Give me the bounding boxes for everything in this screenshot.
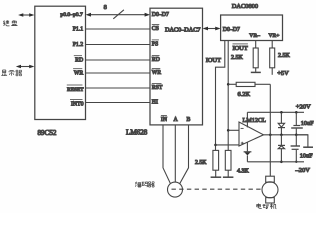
- wire to op-amp non-inverting input: [216, 144, 240, 146]
- svg-text:PS: PS: [152, 42, 158, 48]
- encoder circle: [168, 182, 183, 197]
- svg-text:CS: CS: [152, 26, 159, 32]
- svg-text:VR–: VR–: [249, 33, 260, 39]
- svg-text:A: A: [174, 117, 179, 123]
- svg-text:DAC0800: DAC0800: [232, 3, 258, 10]
- wire op-amp output: [264, 134, 308, 136]
- svg-text:10uF: 10uF: [301, 120, 314, 127]
- op-amp U1 LM12CL: [239, 122, 264, 146]
- svg-text:HI: HI: [152, 100, 158, 106]
- node diode bottom junction: [280, 161, 283, 164]
- ground (2.5K): [211, 176, 222, 178]
- svg-text:2.5K: 2.5K: [278, 53, 291, 59]
- ground (4.3K): [223, 176, 234, 178]
- svg-text:VR+: VR+: [269, 33, 280, 39]
- node diode mid junction: [280, 134, 283, 137]
- svg-text:+20V: +20V: [296, 104, 311, 111]
- svg-text:LM12CL: LM12CL: [243, 117, 267, 124]
- label keyboard (键盘): [3, 20, 17, 26]
- wire IOUT with jog: [216, 41, 225, 151]
- node junction inverting input: [227, 129, 230, 132]
- wire op-amp V- stub: [246, 142, 248, 151]
- motor brush bottom: [266, 198, 275, 203]
- ground (VR- resistor): [251, 71, 261, 73]
- ground (output stub): [303, 146, 313, 148]
- wire V+ supply to op-amp: [246, 112, 248, 127]
- svg-text:LM628: LM628: [126, 129, 148, 137]
- supply rail -20V: [247, 161, 304, 163]
- svg-text:WR: WR: [74, 70, 83, 76]
- svg-text:INT0: INT0: [71, 102, 84, 108]
- svg-text:RD: RD: [75, 57, 83, 63]
- resistor 2.5K (to ground, IOUT): [213, 150, 219, 170]
- wire feedback and motor drive vertical: [269, 84, 271, 176]
- capacitor C1 10uF (+20V rail): [295, 111, 298, 114]
- svg-text:10uF: 10uF: [300, 153, 313, 160]
- resistor 4.3K (to ground, IOUT-bar): [225, 150, 231, 170]
- wire 8-bit data bus 89C52 to LM628: [86, 13, 150, 17]
- motion controller LM628 box: [150, 8, 203, 125]
- wire P1.2 to PS: [86, 44, 151, 46]
- wire to op-amp inverting input: [228, 129, 239, 131]
- wire to 6.2K: [228, 83, 236, 85]
- wire dashed mechanical coupling encoder to motor: [172, 188, 263, 190]
- wire resistor to +5V: [271, 68, 273, 75]
- wire encoder channel B: [180, 125, 189, 184]
- wire RD to RD: [86, 59, 151, 61]
- node keyboard arrow: [18, 13, 34, 17]
- supply rail +20V: [247, 111, 304, 113]
- svg-text:89C52: 89C52: [38, 129, 57, 137]
- node display arrow: [16, 65, 35, 69]
- node output/motor junction: [269, 134, 272, 137]
- svg-text:WR: WR: [152, 70, 161, 76]
- label display (显示器): [1, 70, 22, 76]
- node junction non-inverting input: [214, 144, 217, 147]
- motor M (DC motor): [266, 176, 275, 182]
- wire DAC bus LM628 to DAC0800: [203, 27, 221, 31]
- bus slash: [113, 10, 124, 19]
- svg-text:RST: RST: [152, 85, 163, 91]
- svg-text:+5V: +5V: [277, 70, 289, 77]
- wire VR+ to resistor: [271, 41, 273, 49]
- wire WR to WR: [86, 72, 151, 74]
- svg-text:2.5K: 2.5K: [195, 160, 207, 166]
- capacitor C2 10uF (-20V rail): [295, 135, 297, 146]
- wire to ground: [227, 170, 229, 176]
- svg-text:DAC0–DAC7: DAC0–DAC7: [165, 27, 200, 34]
- svg-text:p0.0–p0.7: p0.0–p0.7: [60, 12, 83, 18]
- node diode column top junction: [280, 111, 283, 114]
- wire encoder channel A: [174, 125, 176, 182]
- wire P1.1 to CS: [86, 28, 151, 30]
- diode D1 (clamp to +20V): [278, 123, 284, 127]
- wire output stub to ground bar: [296, 135, 308, 147]
- wire 6.2K to output node: [255, 83, 270, 85]
- node capacitor mid junction: [295, 134, 298, 137]
- wire INT0 to HI: [86, 102, 151, 104]
- wire rail to D1: [280, 112, 282, 123]
- DAC0800 box: [221, 15, 283, 41]
- svg-text:RD: RD: [152, 57, 160, 63]
- wire encoder channel IN: [163, 125, 170, 183]
- svg-text:4.3K: 4.3K: [237, 169, 250, 175]
- diode D2 (clamp to -20V): [280, 135, 282, 146]
- label motor (电动机): [257, 203, 277, 209]
- wire VR- to resistor: [255, 41, 257, 49]
- svg-text:D0–D7: D0–D7: [223, 27, 240, 33]
- wire IOUT-bar vertical: [227, 41, 229, 151]
- svg-text:P1.1: P1.1: [73, 26, 84, 32]
- resistor 2.5K (VR-): [253, 48, 258, 68]
- svg-text:–20V: –20V: [295, 167, 311, 174]
- wire to ground: [215, 170, 217, 176]
- resistor 6.2K (feedback): [236, 82, 255, 86]
- svg-text:2.5K: 2.5K: [231, 55, 244, 61]
- node junction IOUT-bar / 6.2K: [227, 83, 230, 86]
- diode D3 (V- protection): [244, 151, 252, 153]
- wire RESET to RST: [86, 87, 151, 89]
- svg-text:P1.2: P1.2: [73, 42, 84, 48]
- svg-text:8: 8: [104, 4, 107, 11]
- svg-text:D0–D7: D0–D7: [152, 12, 169, 18]
- label encoder (编码器): [135, 182, 154, 187]
- wire resistor to ground: [255, 68, 257, 72]
- svg-text:RESET: RESET: [67, 87, 84, 93]
- svg-text:IOUT: IOUT: [233, 45, 248, 52]
- svg-text:B: B: [187, 117, 191, 123]
- svg-text:IOUT: IOUT: [206, 57, 221, 64]
- MCU 89C52 box: [35, 6, 86, 119]
- svg-text:IN: IN: [161, 117, 168, 123]
- svg-text:6.2K: 6.2K: [238, 91, 251, 98]
- resistor 2.5K (VR+): [270, 48, 275, 68]
